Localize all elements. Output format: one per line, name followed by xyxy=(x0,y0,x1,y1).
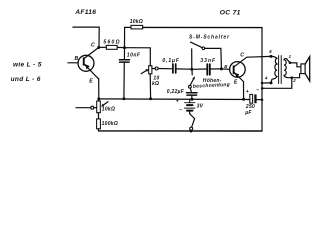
node emitter junction dot xyxy=(97,97,100,100)
svg-text:100kΩ: 100kΩ xyxy=(102,121,118,127)
wire input tap with connector circle xyxy=(76,107,91,109)
transformer T1 secondary winding xyxy=(284,60,286,76)
wire AF116 emitter down xyxy=(97,79,100,99)
wire secondary top to speaker xyxy=(290,63,301,67)
svg-text:−: − xyxy=(256,88,259,94)
wire wiper to capacitor 0,1uF xyxy=(158,68,172,70)
capacitor 0,1uF xyxy=(173,64,191,73)
svg-text:0,22µF: 0,22µF xyxy=(167,89,185,95)
node battery-top junction dot xyxy=(191,98,194,101)
wire node A to volume pot xyxy=(125,48,151,66)
svg-text:und L - 6: und L - 6 xyxy=(11,76,41,83)
svg-text:C: C xyxy=(240,53,244,59)
node dot 10nF on ground rail xyxy=(122,97,125,100)
svg-text:B: B xyxy=(75,56,79,62)
svg-text:1: 1 xyxy=(289,54,292,59)
svg-text:beschneidung: beschneidung xyxy=(193,82,231,90)
node secondary top dot xyxy=(289,62,292,65)
wire primary bottom to supply xyxy=(262,82,271,84)
wire bottom supply rail xyxy=(99,130,263,132)
svg-text:E: E xyxy=(89,79,93,85)
capacitor 33nF xyxy=(192,64,221,75)
svg-text:+: + xyxy=(246,89,249,95)
trimmer resistor 10k xyxy=(97,99,108,113)
resistor R 10k xyxy=(131,25,143,29)
transistor Q1 AF116 xyxy=(68,48,99,79)
svg-text:−: − xyxy=(179,108,182,114)
wire OC71 emitter down xyxy=(243,82,245,99)
svg-text:wie L - 5: wie L - 5 xyxy=(13,62,42,69)
svg-text:+: + xyxy=(176,99,179,105)
svg-text:2: 2 xyxy=(292,78,296,83)
svg-text:E: E xyxy=(234,79,238,85)
transformer T1 core xyxy=(278,56,280,84)
svg-text:10kΩ: 10kΩ xyxy=(130,19,143,25)
node supply-primary dot xyxy=(261,82,264,85)
speaker LS xyxy=(301,57,310,81)
svg-text:kΩ: kΩ xyxy=(152,81,159,87)
wire C node to resistor 560 xyxy=(99,46,107,48)
wire node A up to resistor 10k xyxy=(125,27,132,47)
svg-text:C: C xyxy=(91,42,95,48)
connector circle input xyxy=(91,106,94,109)
svg-text:S-M-Schalter: S-M-Schalter xyxy=(189,35,230,41)
svg-text:10kΩ: 10kΩ xyxy=(102,106,115,112)
wire connector to trimmer xyxy=(94,107,97,109)
node B OC71 junction dot xyxy=(220,67,223,70)
node supply-250uF dot xyxy=(261,98,264,101)
svg-text:4: 4 xyxy=(264,75,268,80)
wire secondary return to supply xyxy=(262,78,292,89)
node C junction dot xyxy=(97,46,100,49)
svg-text:6: 6 xyxy=(269,49,272,54)
capacitor 0,22uF xyxy=(187,88,198,99)
node pot bottom dot xyxy=(149,97,152,100)
node transformer primary bottom dot xyxy=(270,81,273,84)
transformer T1 primary winding xyxy=(271,56,277,82)
battery 3V xyxy=(185,99,195,114)
svg-text:µF: µF xyxy=(244,110,252,116)
svg-text:B: B xyxy=(224,64,227,69)
svg-text:10nF: 10nF xyxy=(127,53,141,59)
svg-text:33nF: 33nF xyxy=(200,58,216,64)
svg-text:560Ω: 560Ω xyxy=(103,40,120,46)
node secondary bottom dot xyxy=(291,76,294,79)
transistor Q2 OC71 xyxy=(230,56,271,81)
wire to OC71 base xyxy=(221,68,229,70)
node supply-secondary dot xyxy=(261,87,264,90)
resistor 560 ohm xyxy=(106,45,117,49)
switch S-M-Schalter xyxy=(191,42,222,69)
node transformer primary top dot xyxy=(270,55,273,58)
node OC71 emitter dot xyxy=(242,98,245,101)
wire resistor 560 to node A xyxy=(117,46,124,48)
node A junction dot xyxy=(123,46,126,49)
svg-text:AF116: AF116 xyxy=(74,9,96,16)
capacitor 10nF xyxy=(119,48,129,99)
wire input top-left to C node xyxy=(73,27,99,47)
node signal junction dot xyxy=(190,68,193,71)
svg-text:0,1µF: 0,1µF xyxy=(162,58,179,64)
wire ground mid rail xyxy=(99,98,250,101)
node battery switch dot on rail xyxy=(189,130,192,133)
wire secondary bottom to speaker xyxy=(292,74,300,78)
wire top supply rail xyxy=(143,26,262,28)
svg-text:OC 71: OC 71 xyxy=(220,10,241,17)
switch battery on-off xyxy=(190,114,195,130)
resistor 100k xyxy=(97,113,101,131)
switch Hoehenbeschneidung xyxy=(189,69,195,88)
capacitor 250uF electrolytic xyxy=(250,94,262,103)
svg-text:3V: 3V xyxy=(197,103,204,109)
wire right supply vertical xyxy=(261,28,263,131)
potentiometer volume 10k xyxy=(141,66,158,99)
